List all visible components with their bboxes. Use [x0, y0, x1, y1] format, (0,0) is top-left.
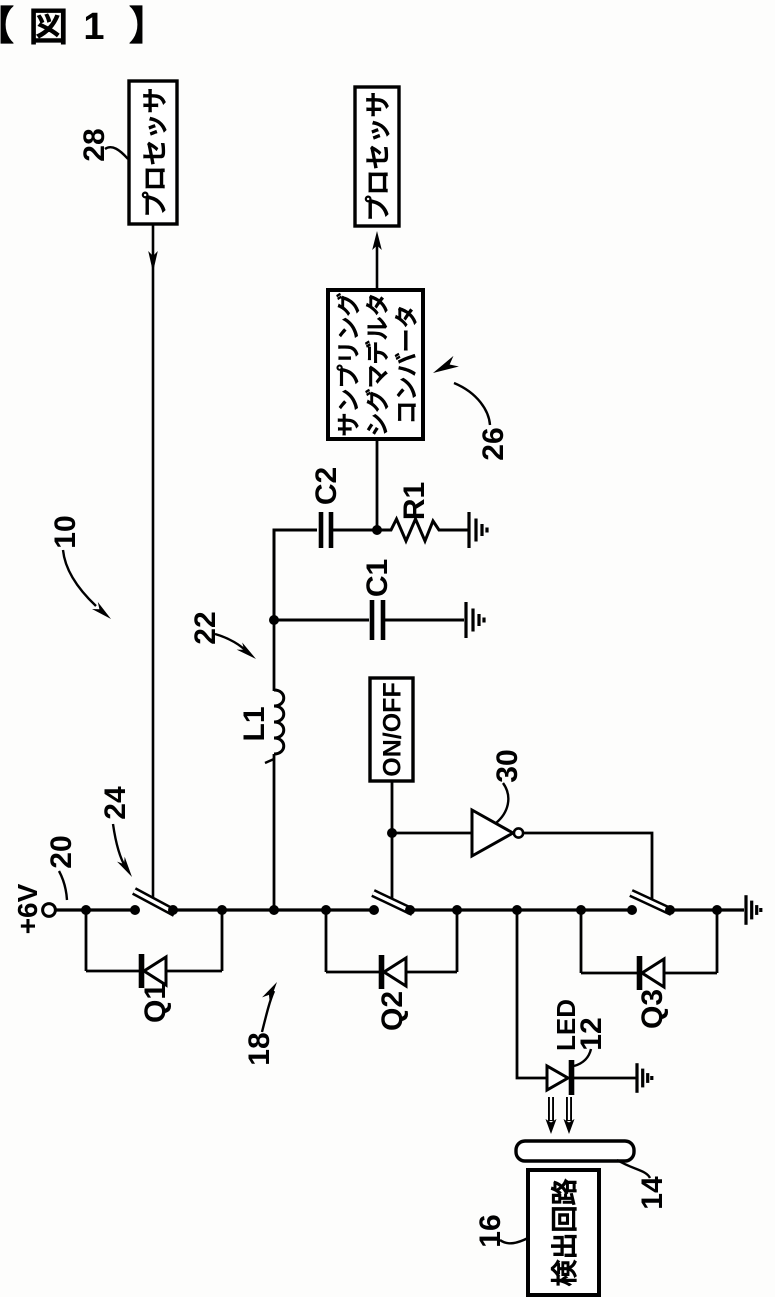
capacitor C2 — [321, 512, 331, 548]
node at C2/R1/converter junction — [372, 525, 382, 535]
wire node to C2 — [274, 530, 317, 620]
svg-text:R1: R1 — [398, 482, 431, 520]
node switchQ3 right — [665, 905, 675, 915]
capacitor C1 — [372, 600, 383, 640]
inductor L1 — [274, 690, 284, 754]
svg-text:ON/OFF: ON/OFF — [379, 682, 407, 776]
label C1 — [361, 559, 394, 597]
label 26 — [477, 427, 510, 460]
node switch24 right — [168, 905, 178, 915]
node switchQ2 right — [405, 905, 415, 915]
ON/OFF control box — [370, 678, 413, 781]
node L1 bottom — [269, 905, 279, 915]
node switchQ2 left — [369, 905, 379, 915]
wire node up to converter box — [376, 439, 379, 530]
label Q3 — [636, 989, 669, 1029]
ground for C1 — [466, 602, 484, 638]
wire from processor 28 to switch 24 — [152, 224, 155, 899]
label 18 — [243, 1032, 276, 1065]
label 16 — [474, 1214, 507, 1247]
LED diode D12 — [547, 1060, 636, 1095]
switch Q3 blade — [631, 893, 672, 912]
arrowhead on wire 28 — [148, 251, 158, 272]
bus wire segment from +6V to switch 24 — [55, 908, 135, 911]
wire node to inverter input — [392, 832, 472, 835]
leader arrow for 10 — [63, 550, 96, 606]
node at ON/OFF / inverter branch — [387, 828, 397, 838]
wire C-net to L1 — [273, 620, 276, 691]
node Q2 left — [321, 905, 331, 915]
diode Q1 — [86, 910, 222, 988]
wire inverter output to switch Q3 — [523, 833, 652, 900]
label LED — [551, 999, 581, 1051]
leader arrow for 24 — [113, 824, 126, 868]
ground at bus right end — [746, 895, 761, 925]
wire L1 to bus — [273, 754, 276, 910]
ground for LED — [637, 1063, 652, 1093]
supply terminal circle — [43, 904, 56, 917]
detector window bar 14 — [516, 1141, 634, 1161]
inverter bubble — [514, 828, 523, 837]
label 30 — [491, 749, 524, 782]
bus wire segment switchQ2 to switchQ3 — [410, 908, 632, 911]
leader for 14 — [617, 1160, 650, 1178]
wire C2 to node — [331, 529, 377, 532]
label 28 — [78, 128, 111, 161]
leader for 20 — [59, 871, 67, 900]
resistor R1 — [377, 519, 468, 541]
inverter U30 triangle — [472, 810, 513, 856]
svg-text:30: 30 — [491, 749, 524, 782]
svg-text:12: 12 — [575, 1017, 608, 1050]
svg-text:16: 16 — [474, 1214, 507, 1247]
label Q1 — [139, 983, 172, 1023]
svg-text:28: 28 — [78, 128, 111, 161]
sampling sigma-delta converter box 26 — [328, 290, 423, 439]
label 14 — [636, 1176, 669, 1210]
label 22 — [189, 611, 222, 644]
detection circuit box 16 (検出回路) — [528, 1170, 599, 1295]
node Q2 right — [452, 905, 462, 915]
svg-text:Q3: Q3 — [636, 989, 669, 1029]
light ray arrow 1 — [546, 1097, 557, 1134]
node switch24 left — [130, 905, 140, 915]
ground for R1 — [469, 512, 487, 548]
label R1 — [398, 482, 431, 520]
svg-text:+6V: +6V — [12, 883, 43, 934]
processor box 28 (プロセッサ) — [129, 81, 177, 224]
svg-text:14: 14 — [636, 1176, 669, 1210]
leader for 12 — [574, 1049, 591, 1066]
svg-text:L1: L1 — [238, 706, 271, 741]
svg-text:26: 26 — [477, 427, 510, 460]
leader arrow for 18 — [262, 991, 274, 1032]
label 12 — [575, 1017, 608, 1050]
diode Q3 — [581, 910, 717, 990]
label Q2 — [376, 991, 409, 1031]
leader arrow for 26 — [454, 383, 490, 425]
label L1 — [238, 706, 271, 741]
leader for 30 — [496, 783, 508, 823]
wire node to C1 — [274, 619, 369, 622]
leader for 16 — [500, 1238, 528, 1243]
label 10 — [49, 515, 82, 548]
wire C1 to ground — [383, 619, 464, 622]
svg-text:1: 1 — [83, 6, 104, 48]
svg-text:Q1: Q1 — [139, 983, 172, 1023]
svg-text:10: 10 — [49, 515, 82, 548]
leader line for 28 — [105, 147, 128, 159]
svg-text:Q2: Q2 — [376, 991, 409, 1031]
switch Q2 blade — [373, 893, 413, 912]
node Q1 right — [217, 905, 227, 915]
svg-text:18: 18 — [243, 1032, 276, 1065]
light ray arrow 2 — [564, 1097, 575, 1134]
label 24 — [99, 786, 132, 820]
node LED branch — [512, 905, 522, 915]
node switchQ3 left — [627, 905, 637, 915]
diode Q2 — [326, 910, 457, 989]
label C2 — [310, 467, 343, 505]
wire ON/OFF down to switch Q2 — [391, 781, 394, 900]
figure title 【図 1】 — [1, 6, 142, 48]
wire bus to LED — [517, 910, 548, 1078]
node Q3 left — [576, 905, 586, 915]
node Q3 right — [712, 905, 722, 915]
leader arrow for 22 — [215, 634, 248, 653]
node at C1 junction — [269, 615, 279, 625]
label +6V — [12, 883, 43, 934]
svg-text:22: 22 — [189, 611, 222, 644]
svg-text:24: 24 — [99, 786, 132, 820]
bus wire segment switch24 to switch Q2 — [173, 908, 374, 911]
label 20 — [45, 835, 78, 868]
svg-text:C1: C1 — [361, 559, 394, 597]
tick at L1 bottom — [265, 759, 274, 763]
svg-text:C2: C2 — [310, 467, 343, 505]
bus wire segment switchQ3 to ground — [670, 908, 744, 911]
wire converter to processor with up arrow — [376, 243, 379, 290]
switch 24 blade — [134, 891, 175, 913]
node Q1 left — [81, 905, 91, 915]
svg-text:20: 20 — [45, 835, 78, 868]
processor box (サンプリング output プロセッサ) — [355, 87, 399, 226]
